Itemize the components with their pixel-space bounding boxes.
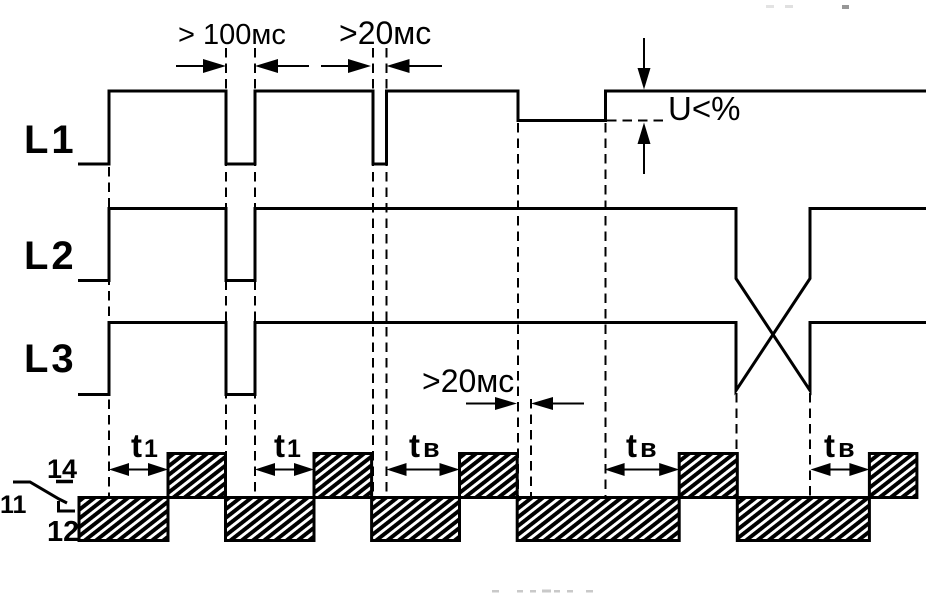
svg-text:L1: L1 <box>24 118 77 162</box>
svg-text:tв: tв <box>626 427 657 464</box>
svg-text:L3: L3 <box>24 337 77 381</box>
svg-text:> 100мс: > 100мс <box>178 19 286 51</box>
svg-text:U<%: U<% <box>668 90 740 127</box>
svg-text:t1: t1 <box>274 427 301 464</box>
svg-text:t1: t1 <box>131 427 158 464</box>
svg-text:12: 12 <box>47 516 79 548</box>
svg-text:>20мс: >20мс <box>422 363 514 399</box>
svg-text:tв: tв <box>824 427 855 464</box>
svg-text:11: 11 <box>0 491 27 519</box>
svg-text:tв: tв <box>409 427 440 464</box>
svg-text:14: 14 <box>47 454 77 484</box>
svg-text:L2: L2 <box>24 234 77 278</box>
svg-text:>20мс: >20мс <box>339 15 431 51</box>
